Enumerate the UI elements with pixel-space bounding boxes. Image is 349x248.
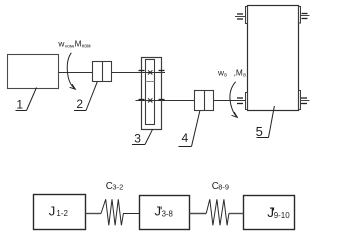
- svg-text:1: 1: [16, 98, 23, 112]
- svg-text:в: в: [224, 72, 227, 78]
- svg-text:ном: ном: [82, 44, 92, 50]
- svg-text:,M: ,M: [72, 39, 81, 49]
- svg-text:3-2: 3-2: [112, 182, 123, 191]
- svg-text:4: 4: [182, 131, 189, 145]
- svg-text:5: 5: [256, 124, 263, 139]
- svg-text:в: в: [243, 72, 246, 78]
- svg-text:3: 3: [134, 132, 141, 146]
- svg-text:3-8: 3-8: [162, 209, 173, 218]
- svg-text:9-10: 9-10: [274, 211, 291, 220]
- svg-text:J: J: [49, 204, 56, 219]
- svg-text:2: 2: [76, 97, 83, 111]
- svg-text:1-2: 1-2: [56, 209, 68, 218]
- svg-text:,M: ,M: [234, 67, 243, 77]
- svg-text:8-9: 8-9: [218, 182, 229, 191]
